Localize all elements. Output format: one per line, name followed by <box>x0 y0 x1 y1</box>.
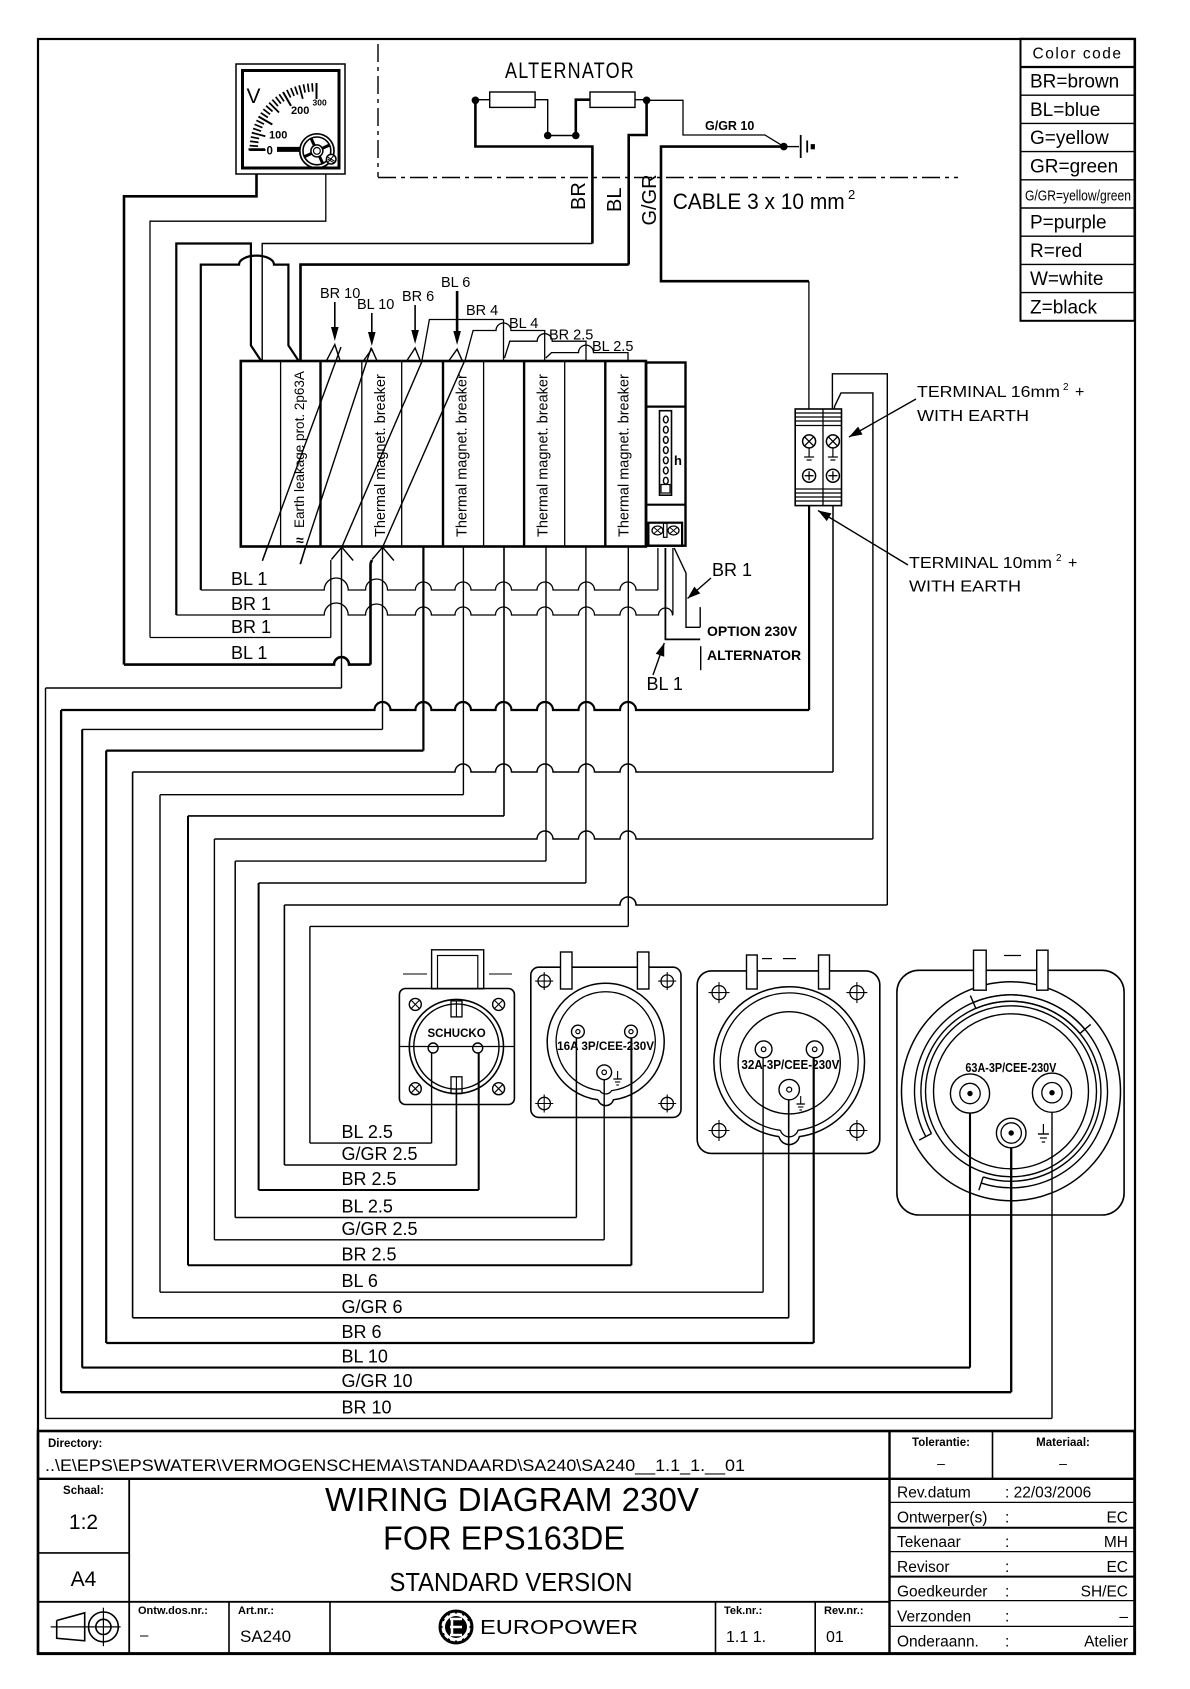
svg-text:63A-3P/CEE-230V: 63A-3P/CEE-230V <box>965 1061 1057 1075</box>
wire BL 2.5 bundle run <box>235 1217 576 1219</box>
wire BR 2.5 socket drop <box>630 1038 632 1265</box>
hour meter h + aux socket <box>646 363 685 546</box>
svg-text:Goedkeurder: Goedkeurder <box>897 1584 987 1601</box>
wire L2 left (thick) <box>576 100 590 136</box>
wire BL 6 socket drop <box>762 1058 764 1292</box>
svg-text:Earth leakage prot. 2p63A: Earth leakage prot. 2p63A <box>292 371 307 528</box>
svg-text:Atelier: Atelier <box>1084 1633 1128 1650</box>
svg-text:WITH EARTH: WITH EARTH <box>909 579 1021 596</box>
wire BL 2.5 socket drop <box>575 1038 577 1218</box>
wire G/GR 2.5 socket drop <box>603 1080 605 1240</box>
svg-text:BL: BL <box>604 188 626 212</box>
terminal block 2x <box>795 409 841 506</box>
breaker panel box <box>241 361 646 547</box>
svg-text:BL 2.5: BL 2.5 <box>592 339 633 355</box>
wire BR 4 <box>422 320 504 362</box>
svg-text:BL 2.5: BL 2.5 <box>342 1197 393 1217</box>
wire BL 2.5 bundle run <box>310 1142 432 1144</box>
wire G/GR to ground <box>647 100 784 146</box>
wire G/GR 6 socket drop <box>788 1100 790 1318</box>
socket 63A 3P/CEE-230V <box>897 970 1124 1215</box>
wire BL 1 row1 <box>201 578 658 590</box>
wire pole1 out (BR10) vertical+corner <box>341 547 343 688</box>
voltmeter left wire <box>124 174 257 665</box>
node A (junction dot left) <box>472 97 480 105</box>
svg-text:STANDARD VERSION: STANDARD VERSION <box>390 1567 633 1597</box>
svg-text:Tolerantie:: Tolerantie: <box>912 1437 970 1449</box>
svg-text:–: – <box>937 1455 945 1471</box>
wire BR 6 bundle run <box>106 1342 814 1344</box>
svg-text:FOR EPS163DE: FOR EPS163DE <box>383 1520 625 1557</box>
svg-text:BR=brown: BR=brown <box>1030 72 1119 93</box>
svg-text:EC: EC <box>1106 1509 1128 1526</box>
node C (junction dot right) <box>643 97 651 105</box>
wire pole5 out (BR2.5) vertical+corner <box>503 547 505 816</box>
svg-text:V: V <box>247 85 261 108</box>
wire G/GR 2.5 riser left x=284.4 <box>283 905 285 1165</box>
arrow to terminal 16 <box>849 399 916 437</box>
lever main switch pole 1 <box>262 347 341 561</box>
svg-text:G/GR: G/GR <box>639 174 661 225</box>
svg-text:Ontwerper(s): Ontwerper(s) <box>897 1509 987 1526</box>
svg-text:EC: EC <box>1106 1559 1128 1576</box>
wire BR 2.5 <box>505 334 587 361</box>
svg-text:Schaal:: Schaal: <box>63 1485 104 1497</box>
svg-text:2: 2 <box>1063 382 1069 393</box>
wire G/GR 2.5 bundle run <box>284 1164 456 1166</box>
svg-text:BL 2.5: BL 2.5 <box>342 1122 393 1142</box>
svg-text:G/GR 2.5: G/GR 2.5 <box>342 1219 418 1239</box>
svg-text:–: – <box>1059 1455 1067 1471</box>
svg-text:Tekenaar: Tekenaar <box>897 1534 961 1551</box>
stub main pole 1 <box>262 547 267 561</box>
svg-text::: : <box>1005 1609 1009 1626</box>
svg-text:G/GR 6: G/GR 6 <box>342 1297 403 1317</box>
svg-text:≈: ≈ <box>296 532 304 548</box>
svg-text:G=yellow: G=yellow <box>1030 128 1109 149</box>
wire G/GR 2.5 riser left x=214.4 <box>213 839 215 1240</box>
svg-text:BR 4: BR 4 <box>466 303 498 319</box>
svg-text:BL=blue: BL=blue <box>1030 100 1100 121</box>
svg-text:Z=black: Z=black <box>1030 297 1098 318</box>
svg-text:BL 6: BL 6 <box>342 1271 378 1291</box>
svg-text:–: – <box>140 1627 149 1644</box>
svg-text:MH: MH <box>1104 1534 1128 1551</box>
wire BR 2.5 bundle run <box>259 1189 479 1191</box>
svg-text:Directory:: Directory: <box>48 1438 102 1450</box>
svg-text:CABLE 3 x 10 mm: CABLE 3 x 10 mm <box>673 189 845 214</box>
svg-text:WITH EARTH: WITH EARTH <box>917 408 1029 425</box>
svg-text:: 22/03/2006: : 22/03/2006 <box>1005 1485 1091 1502</box>
svg-text:1:2: 1:2 <box>69 1511 98 1534</box>
wire BR 10 bundle run <box>46 1417 1053 1419</box>
svg-text:+: + <box>1068 555 1077 572</box>
voltmeter V <box>236 64 345 174</box>
wire G/GR to terminal <box>808 281 810 409</box>
color code table <box>1021 39 1135 321</box>
wire BR tap (thick to left rail) <box>176 244 261 616</box>
svg-text:Art.nr.:: Art.nr.: <box>238 1605 274 1617</box>
phantom dashes <box>783 958 796 960</box>
wire BL 2.5 <box>546 345 628 361</box>
wire BR (alternator to panel) <box>475 100 592 243</box>
svg-text:100: 100 <box>269 130 287 142</box>
svg-text:G/GR 2.5: G/GR 2.5 <box>342 1144 418 1164</box>
svg-text:BR 1: BR 1 <box>231 617 271 637</box>
wire BL 2.5 riser left x=235.2 <box>234 861 236 1217</box>
svg-text:W=white: W=white <box>1030 269 1103 290</box>
voltmeter right wire <box>150 174 326 638</box>
lever breaker1 pole1 <box>342 362 422 547</box>
svg-text:BL 10: BL 10 <box>357 297 394 313</box>
svg-text:Materiaal:: Materiaal: <box>1036 1437 1090 1449</box>
svg-text:BL 4: BL 4 <box>509 316 538 332</box>
wire G/GR2.5 bus a <box>214 831 873 839</box>
svg-text:2: 2 <box>848 187 855 202</box>
svg-text:2: 2 <box>1056 553 1062 564</box>
socket 32A 3P/CEE-230V <box>697 971 880 1154</box>
svg-text:P=purple: P=purple <box>1030 213 1107 234</box>
title block grid <box>38 1431 1135 1653</box>
wire G/GR 6 riser left x=132.6 <box>132 772 134 1318</box>
winding L2 (resistor box) <box>590 92 635 107</box>
svg-text:ALTERNATOR: ALTERNATOR <box>707 647 801 663</box>
wire BL 10 riser left x=82.2 <box>81 729 83 1367</box>
wire BR 2.5 riser left x=188 <box>187 816 189 1265</box>
stub main pole 2 <box>301 547 306 564</box>
wire pole4 out (BL6) vertical+corner <box>462 547 464 795</box>
svg-text:BR 1: BR 1 <box>231 594 271 614</box>
logo EUROPOWER <box>440 1611 472 1643</box>
svg-text:BR 1: BR 1 <box>712 560 752 580</box>
svg-text:Ontw.dos.nr.:: Ontw.dos.nr.: <box>138 1605 208 1617</box>
svg-text:Thermal magnet. breaker: Thermal magnet. breaker <box>455 374 471 537</box>
wire BR 6 riser left x=106.2 <box>105 751 107 1343</box>
contact V output pole 1 <box>331 547 353 560</box>
wire pole7 out (BR2.5b) vertical+corner <box>585 547 587 884</box>
svg-text:GR=green: GR=green <box>1030 156 1118 177</box>
svg-text:G/GR 10: G/GR 10 <box>342 1371 413 1391</box>
svg-text:BR 2.5: BR 2.5 <box>549 328 593 344</box>
wire BL 4 <box>465 323 545 361</box>
svg-text:Rev.datum: Rev.datum <box>897 1485 971 1502</box>
wire BL (alternator to panel) <box>629 100 647 264</box>
svg-text:BL 1: BL 1 <box>231 569 267 589</box>
svg-text:BR 6: BR 6 <box>402 289 434 305</box>
svg-text:01: 01 <box>826 1629 844 1646</box>
svg-text::: : <box>1005 1559 1009 1576</box>
wire BR 1 row2 <box>176 603 673 615</box>
svg-text:BR 10: BR 10 <box>342 1397 392 1417</box>
wire G/GR 10 socket drop <box>1010 1148 1012 1392</box>
svg-text:R=red: R=red <box>1030 241 1082 262</box>
svg-text:0: 0 <box>267 146 273 158</box>
wire BR 10 riser left x=45.5 <box>45 688 47 1418</box>
svg-text:BR 2.5: BR 2.5 <box>342 1169 397 1189</box>
lever main switch pole 2 <box>300 348 371 565</box>
wire G/GR 2.5 bundle run <box>214 1239 604 1241</box>
projection symbol <box>57 1613 85 1641</box>
wire BL 6 bundle run <box>160 1291 763 1293</box>
wire BL 2.5 socket drop <box>431 1053 433 1143</box>
svg-text:–: – <box>1119 1609 1128 1626</box>
node B (junction dots center) <box>544 132 552 140</box>
svg-text:BL 6: BL 6 <box>441 275 470 291</box>
svg-text:Rev.nr.:: Rev.nr.: <box>824 1605 864 1617</box>
svg-text:..\E\EPS\EPSWATER\VERMOGENSCHE: ..\E\EPS\EPSWATER\VERMOGENSCHEMA\STANDAA… <box>45 1457 745 1475</box>
svg-text:Thermal magnet. breaker: Thermal magnet. breaker <box>617 374 633 537</box>
svg-text::: : <box>1005 1633 1009 1650</box>
svg-text:32A-3P/CEE-230V: 32A-3P/CEE-230V <box>741 1058 840 1072</box>
svg-text::: : <box>1005 1584 1009 1601</box>
svg-text:Revisor: Revisor <box>897 1559 950 1576</box>
svg-text::: : <box>1005 1534 1009 1551</box>
wire BL 2.5 riser left x=309.9 <box>309 926 311 1143</box>
arrow to terminal 10 <box>818 511 908 566</box>
svg-text:SCHUCKO: SCHUCKO <box>428 1028 486 1040</box>
wire pole6 out (BL2.5) vertical+corner <box>545 547 547 862</box>
svg-text:ALTERNATOR: ALTERNATOR <box>505 58 635 83</box>
wire BL 10 bundle run <box>82 1367 970 1369</box>
winding L1 (resistor box) <box>490 92 535 107</box>
svg-text:200: 200 <box>291 105 309 117</box>
svg-text:Thermal magnet. breaker: Thermal magnet. breaker <box>536 374 552 537</box>
wire BL 1 row4 <box>124 657 371 664</box>
wire G/GR 2.5 socket drop <box>455 1090 457 1165</box>
svg-text:BR 10: BR 10 <box>320 286 360 302</box>
svg-text:TERMINAL 16mm: TERMINAL 16mm <box>917 384 1060 401</box>
svg-text:Tek.nr.:: Tek.nr.: <box>724 1605 762 1617</box>
svg-text:BL 1: BL 1 <box>231 643 267 663</box>
svg-text:OPTION 230V: OPTION 230V <box>707 623 798 639</box>
contact V entry 3 <box>406 348 420 361</box>
svg-text:BL 10: BL 10 <box>342 1347 388 1367</box>
wire BL 10 socket drop <box>969 1113 971 1368</box>
wire BL 1 option <box>665 548 700 639</box>
contact V output pole 2 <box>372 547 394 560</box>
wire BR 6 socket drop <box>813 1058 815 1343</box>
earth ground symbol <box>800 135 802 158</box>
wire pole2 out (BL10) vertical+corner <box>382 547 384 729</box>
svg-text::: : <box>1005 1509 1009 1526</box>
svg-text:G/GR 10: G/GR 10 <box>705 119 754 133</box>
wire G/GR2.5 bus b <box>284 897 887 905</box>
wire BL 6 riser left x=160 <box>159 795 161 1292</box>
svg-text:EUROPOWER: EUROPOWER <box>480 1617 638 1639</box>
contact V entry 1 <box>326 345 340 362</box>
svg-text:G/GR=yellow/green: G/GR=yellow/green <box>1025 189 1131 205</box>
svg-text:BL 1: BL 1 <box>647 674 683 694</box>
svg-text:300: 300 <box>313 98 327 108</box>
svg-text:Color code: Color code <box>1033 46 1123 63</box>
svg-text:+: + <box>1075 384 1084 401</box>
socket SCHUCKO <box>432 950 484 989</box>
wire BR 2.5 riser left x=258.6 <box>258 883 260 1190</box>
wire G/GR 10 riser left x=61.1 <box>60 710 62 1392</box>
wire BL feed (from alternator) <box>301 265 629 361</box>
wire L1 ends <box>475 99 489 101</box>
svg-text:SA240: SA240 <box>240 1627 291 1646</box>
wire BR 10 socket drop <box>1051 1113 1053 1418</box>
svg-text:Verzonden: Verzonden <box>897 1609 971 1626</box>
svg-text:TERMINAL 10mm: TERMINAL 10mm <box>909 555 1052 572</box>
svg-text:WIRING DIAGRAM 230V: WIRING DIAGRAM 230V <box>325 1481 699 1518</box>
wire BR 2.5 socket drop <box>478 1053 480 1190</box>
svg-text:BR 6: BR 6 <box>342 1322 382 1342</box>
wire BR 1 row3 <box>150 637 331 639</box>
svg-text:16A 3P/CEE-230V: 16A 3P/CEE-230V <box>557 1039 654 1053</box>
wire BL tap (left rail with hop) <box>201 256 299 590</box>
svg-text:A4: A4 <box>71 1568 97 1591</box>
wire G/GR 10 bundle run <box>61 1391 1011 1393</box>
wire BR 2.5 bundle run <box>188 1264 631 1266</box>
svg-text:Onderaann.: Onderaann. <box>897 1633 979 1650</box>
svg-text:h: h <box>674 453 682 468</box>
wire G/GR10 bus <box>61 702 809 710</box>
node ground (junction dot) <box>780 143 788 151</box>
svg-text:SH/EC: SH/EC <box>1081 1584 1128 1601</box>
lever breaker1 pole2 <box>383 362 465 548</box>
wire BR feed (from alternator) <box>262 244 592 361</box>
socket 16A 3P/CEE-230V <box>531 967 681 1117</box>
wire G/GR 6 bundle run <box>133 1317 789 1319</box>
wire G/GR (thick down) <box>661 147 809 282</box>
wire pole3 out (BR6) vertical+corner <box>422 547 424 751</box>
svg-text:1.1 1.: 1.1 1. <box>726 1629 766 1646</box>
wire BR 1 option <box>674 548 700 627</box>
svg-text:BR: BR <box>568 182 590 210</box>
wire G/GR6 bus <box>133 764 833 772</box>
wire pole8 out (BL2.5b) vertical+corner <box>627 547 629 927</box>
wire L2 right to node C <box>635 99 647 101</box>
contact V entry 2 <box>363 349 377 361</box>
svg-text:BR 2.5: BR 2.5 <box>342 1244 397 1264</box>
alternator phantom border (dash-dot) <box>377 44 379 177</box>
wire to earth symbol <box>784 146 799 148</box>
contact V entry 4 <box>448 349 462 361</box>
